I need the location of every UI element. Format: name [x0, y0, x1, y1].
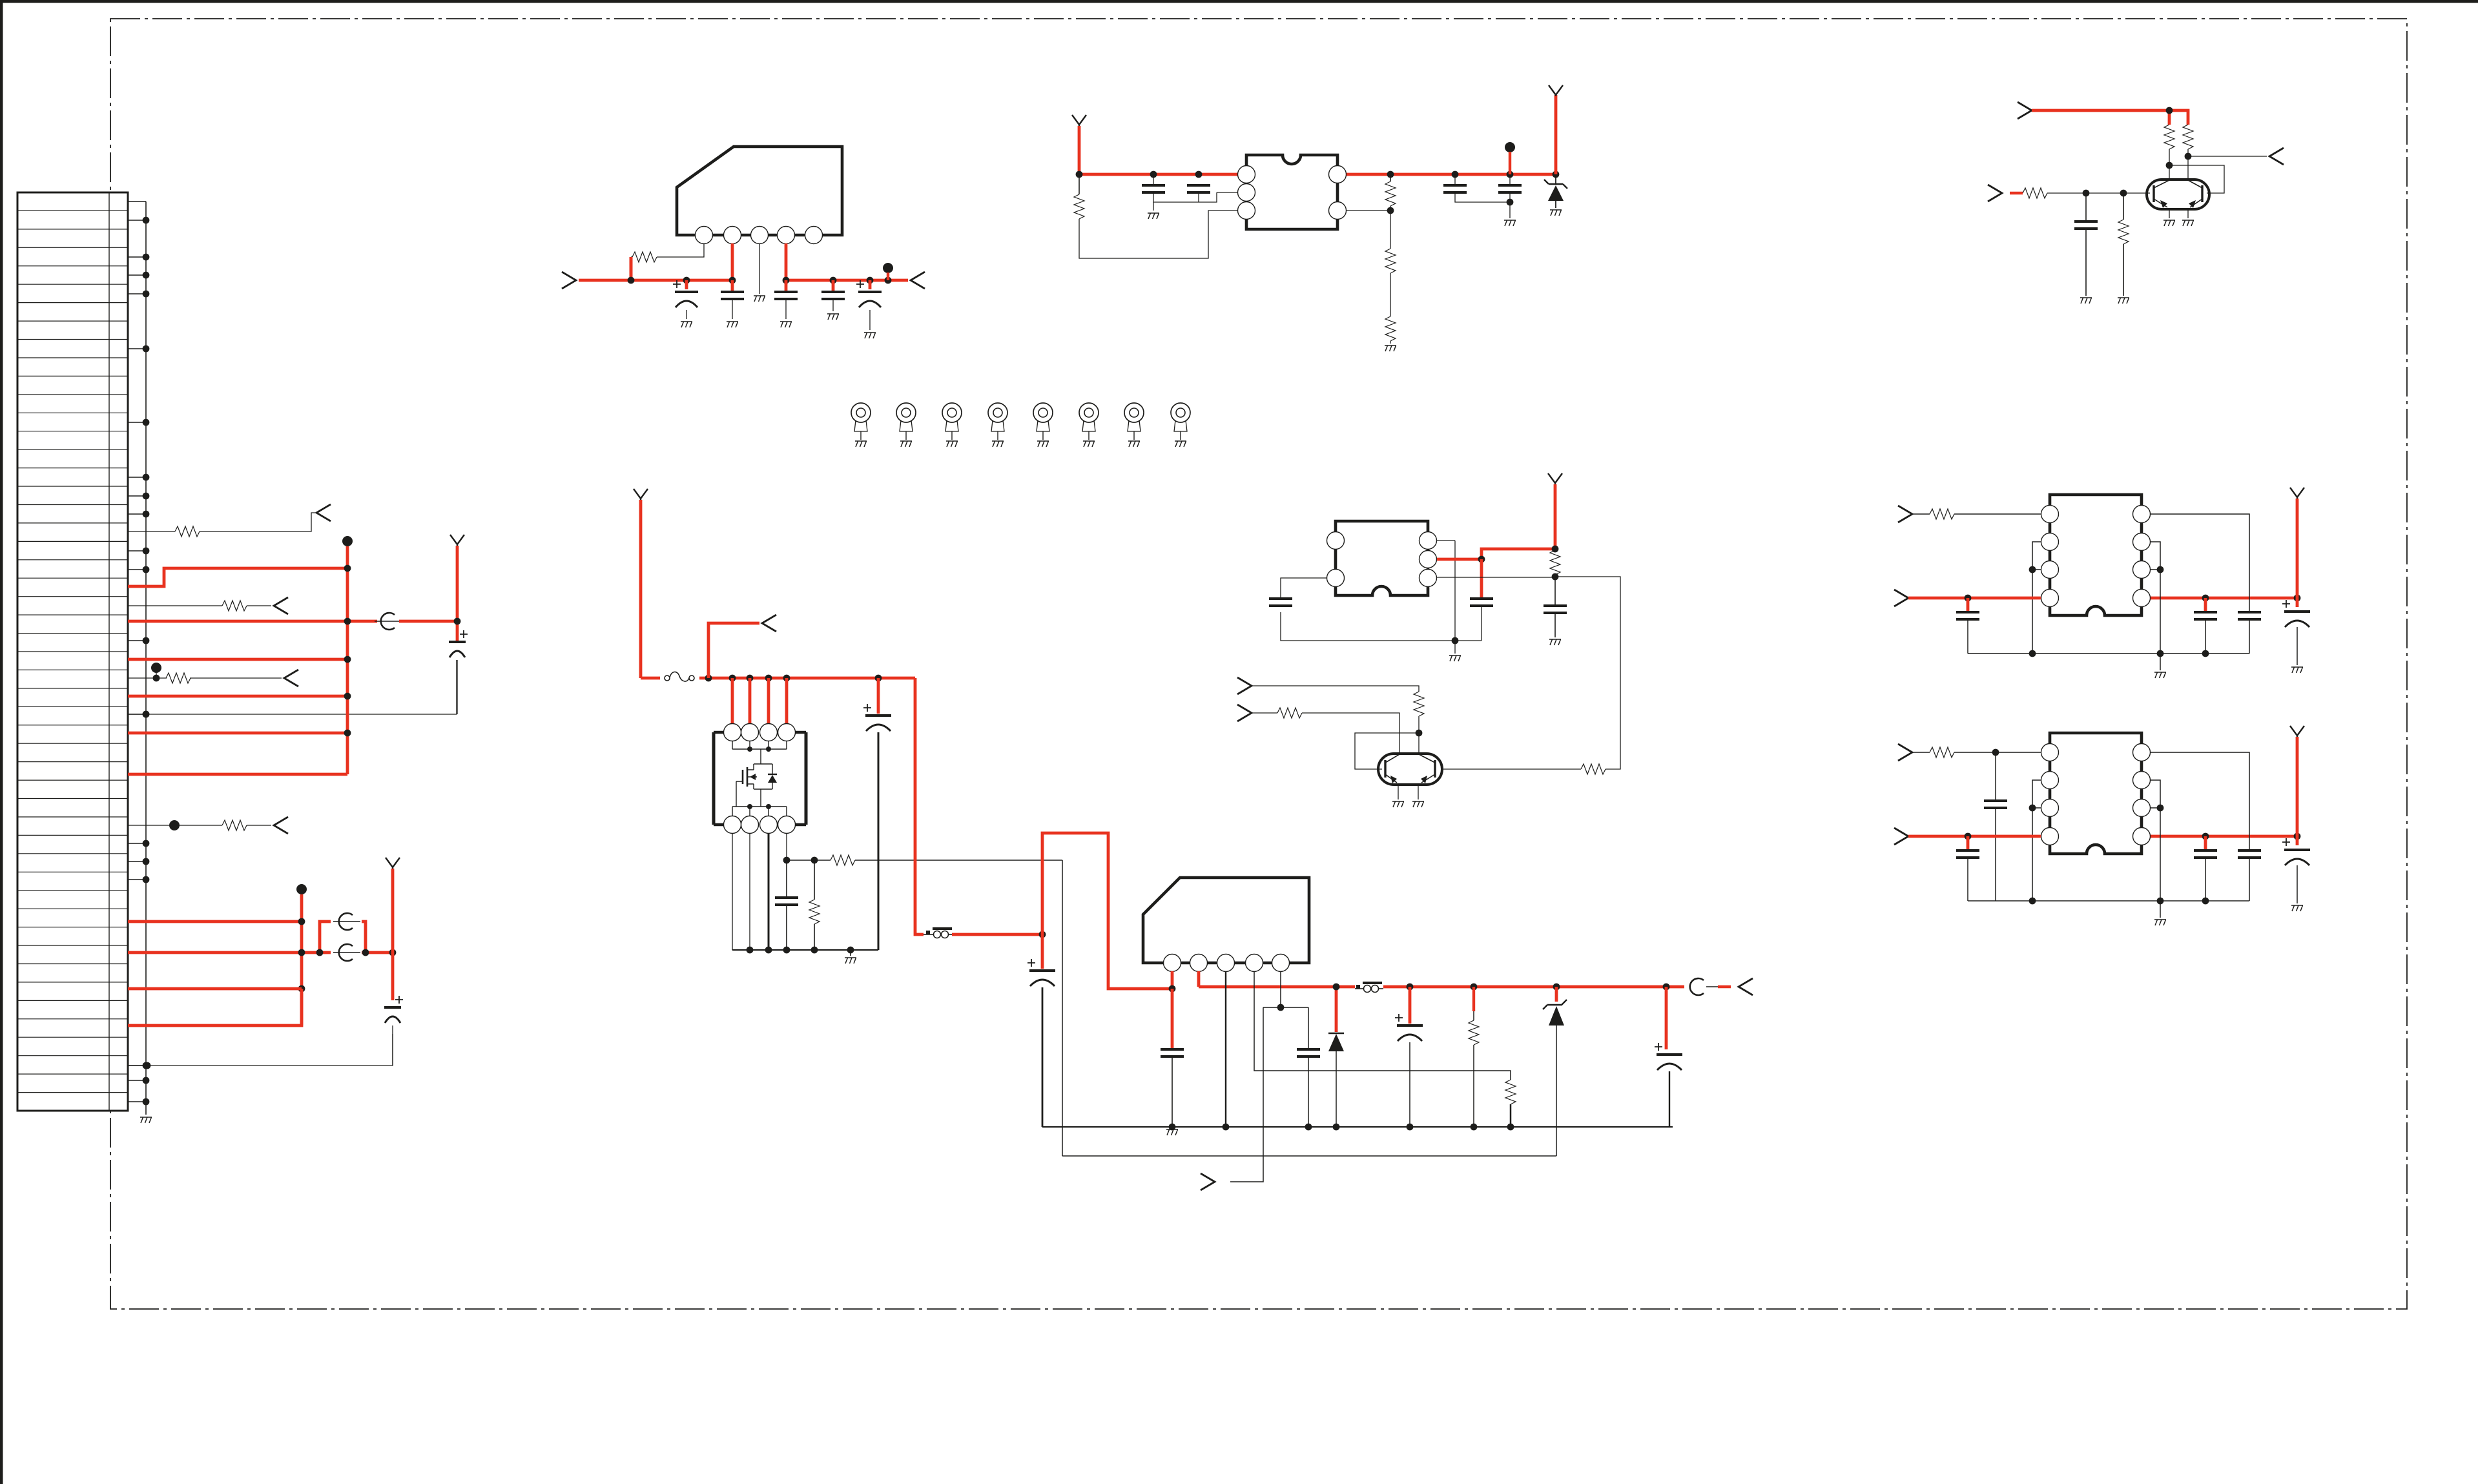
- junction dot R21: [1471, 1124, 1478, 1131]
- capacitor C8: [1443, 185, 1467, 192]
- wire red A: [128, 568, 347, 586]
- IC U2 body: [1246, 155, 1337, 229]
- resistor R8: [2023, 188, 2047, 198]
- regulator U5 body: [1143, 878, 1309, 963]
- connector pin stubs: [128, 201, 146, 202]
- wire red H: [128, 920, 302, 923]
- connector ground bus wire: [145, 201, 147, 1115]
- ground of E8: [1175, 441, 1186, 447]
- amplifier U6 body: [2050, 495, 2142, 615]
- power flag V6: [634, 489, 648, 500]
- wire red U2 out: [1347, 173, 1556, 176]
- ground of E6: [1083, 441, 1095, 447]
- resistor R9: [2123, 193, 2124, 220]
- resistor U6R: [1930, 509, 1954, 519]
- capacitor C1 stub: [685, 280, 688, 289]
- wire U6 gnd stub: [2160, 654, 2161, 670]
- junction dot C18: [1305, 1124, 1312, 1131]
- wire red I: [128, 951, 331, 954]
- wire row6 (to cap C5): [128, 1034, 393, 1066]
- capacitor C2: [721, 292, 744, 299]
- capacitor C3b stub: [832, 280, 835, 291]
- junction dot node B: [454, 618, 461, 625]
- capacitor C13: [1554, 577, 1556, 604]
- U5 pins: [1164, 954, 1181, 972]
- wire Q2 base link: [1355, 733, 1419, 769]
- ground Q1 e2: [2182, 220, 2194, 226]
- wire red V5: [1554, 484, 1557, 549]
- junction dots U7r: [2157, 805, 2164, 812]
- ground of E2: [900, 441, 912, 447]
- wire U4 pinb3 thick: [768, 833, 770, 950]
- arrow out6: [2269, 148, 2284, 165]
- ground C3: [780, 322, 792, 327]
- power flag V4: [1549, 85, 1563, 96]
- ground Q2 e2: [1412, 801, 1424, 807]
- photocoupler U3 body: [1336, 521, 1428, 595]
- junction dot p5: [1277, 1004, 1285, 1011]
- wire U7 left loop: [2032, 780, 2041, 901]
- wire row3: [128, 673, 282, 678]
- wire U6 fb loop: [2151, 514, 2249, 611]
- ground R5: [1385, 345, 1396, 351]
- ground R9: [2118, 298, 2129, 304]
- junction dot R3: [1387, 207, 1394, 214]
- junction dots U2 out: [1387, 171, 1394, 178]
- wire U2 pin2 link: [1217, 192, 1237, 193]
- arrow in4: [1237, 677, 1252, 694]
- capacitor U7Cd: [2296, 836, 2299, 845]
- wire row5: [128, 825, 271, 826]
- capacitor C11: [1269, 599, 1292, 606]
- wire U5 pin5 loop: [1230, 971, 1308, 1182]
- wire R3 chain: [1347, 181, 1390, 249]
- diode D3: [1335, 987, 1338, 1032]
- arrow out4: [274, 817, 288, 834]
- mosfet U4 body: [714, 732, 806, 825]
- wire U1 pin3: [759, 243, 760, 294]
- capacitor C1: [673, 280, 681, 288]
- U4 internal bottom rail: [732, 807, 787, 816]
- wire U5 pin1 red: [1171, 971, 1174, 989]
- wire U4 pinb4: [786, 833, 787, 860]
- U4 pins top: [724, 724, 741, 741]
- arrow out5: [911, 272, 925, 289]
- power flag V1: [450, 535, 464, 546]
- wire red L1 out: [952, 933, 1042, 936]
- wire row4 (to cap C4): [128, 660, 457, 714]
- fuse F1: [665, 675, 670, 681]
- ground D1: [1550, 210, 1562, 216]
- capacitor U6Ca: [1967, 598, 1970, 611]
- junction dot V5: [1552, 546, 1559, 553]
- junction dot U5 p1: [1169, 985, 1176, 993]
- wire in U6a: [1912, 513, 1930, 515]
- arrow in2: [2018, 102, 2032, 119]
- ground U4: [845, 958, 856, 964]
- wire fb long: [1062, 860, 1556, 1156]
- junction dot R14: [1552, 573, 1559, 581]
- capacitor C3c: [856, 280, 864, 288]
- ground U7a: [2154, 920, 2166, 925]
- capacitor C2 stub: [731, 280, 734, 291]
- junction dot U5 p3: [1223, 1124, 1230, 1131]
- capacitor C16: [1041, 934, 1044, 969]
- wire U4 pinb2: [749, 833, 750, 950]
- junction dot Q1 b: [2166, 162, 2173, 169]
- wire red U4 pin stubs: [731, 678, 734, 724]
- junction dot L1: [1039, 931, 1046, 938]
- junction dots U1 bus: [628, 277, 635, 284]
- amplifier U7 body: [2050, 733, 2142, 854]
- wire rail gnd: [850, 950, 851, 956]
- wire R5 gnd: [1390, 341, 1391, 344]
- wire C3c gnd: [869, 310, 871, 330]
- junction dots U6l: [2029, 566, 2036, 573]
- wire red V1 drop: [456, 546, 459, 642]
- wire in5: [1252, 712, 1277, 714]
- resistor R14: [1554, 549, 1556, 550]
- junction dot D3: [1333, 1124, 1340, 1131]
- wire red B2: [399, 620, 457, 623]
- wire C3 gnd: [785, 299, 787, 319]
- junction dots in3: [2083, 190, 2090, 197]
- resistor R17: [1277, 708, 1302, 718]
- junction dots U4 bus: [705, 675, 712, 682]
- capacitor C18: [1297, 1049, 1320, 1056]
- power flag VU7: [2290, 726, 2304, 737]
- wire R6 down: [2169, 149, 2170, 180]
- junction dots sense: [783, 857, 790, 864]
- wire red p1 down: [1171, 989, 1174, 1048]
- junction dot U3 out: [1478, 556, 1485, 563]
- wire red in U6b: [1908, 597, 2041, 600]
- U7 pins right: [2133, 744, 2151, 761]
- resistor R16: [1414, 692, 1424, 716]
- capacitor C7: [1187, 185, 1210, 192]
- wire R4-R5: [1390, 273, 1391, 316]
- capacitor U7Cb: [2204, 836, 2207, 849]
- wire Q1 emitters: [2169, 208, 2170, 218]
- U6 pins left: [2041, 506, 2059, 523]
- zener D1: [1555, 174, 1556, 184]
- capacitor C3c stub: [869, 280, 872, 289]
- wire U1 pin4 red: [785, 243, 788, 280]
- ground U5: [1166, 1129, 1178, 1135]
- junction dot U7b: [1965, 833, 1972, 840]
- terminal lug E5: [1033, 403, 1053, 422]
- mosfet Q3 internal: [754, 749, 761, 770]
- red bus 2: [300, 894, 304, 1025]
- resistor R5: [1385, 316, 1396, 341]
- arrow out8: [1739, 978, 1753, 995]
- wire R15 to Q2: [1442, 768, 1581, 770]
- junction dots U2 bus: [1076, 171, 1083, 178]
- wire C6 bottom: [1153, 192, 1217, 202]
- junction dot Q2 a: [1416, 730, 1423, 737]
- capacitor C4: [460, 630, 468, 638]
- wire row2: [128, 605, 271, 606]
- arrow out2: [274, 597, 288, 614]
- wire red upper hop2: [362, 922, 366, 953]
- terminal dot TP3: [342, 536, 353, 546]
- wire C8 bottom: [1455, 192, 1510, 202]
- resistor R3: [1390, 174, 1391, 181]
- body diode D2: [761, 764, 772, 789]
- U3 pins: [1327, 532, 1345, 550]
- junction dot C17: [1169, 1124, 1176, 1131]
- wire U7 gnd rail: [1968, 900, 2249, 902]
- capacitor C9 stub: [1509, 174, 1511, 185]
- wire R7 down: [2187, 149, 2189, 180]
- terminal lug E3: [942, 403, 962, 422]
- capacitor C20: [1665, 987, 1668, 1049]
- ferrite FB1: [375, 621, 404, 622]
- U7 pins left: [2041, 744, 2059, 761]
- wire red D: [128, 695, 347, 698]
- capacitor U7Ca: [1967, 836, 1970, 849]
- wire C12 down: [1481, 606, 1482, 641]
- resistor R1: [632, 252, 657, 262]
- arrow out1: [316, 504, 331, 521]
- wire red upper hop: [320, 922, 331, 953]
- wire U1 pin1: [657, 243, 704, 257]
- power flag V3: [1072, 115, 1086, 126]
- wire red in3 stub: [2010, 192, 2023, 194]
- arrow in U6a: [1898, 506, 1912, 522]
- wire in5b: [1302, 713, 1399, 754]
- capacitor C15: [863, 704, 871, 712]
- wire red V3: [1078, 126, 1081, 174]
- wire U7 right loop: [2151, 780, 2160, 901]
- capacitor C12: [1470, 599, 1493, 606]
- power flag V2: [386, 858, 400, 869]
- junction dot Q1 top: [2166, 107, 2173, 114]
- wire red V4 riser: [1554, 95, 1558, 174]
- wire C9 gnd: [1509, 192, 1511, 218]
- U1 pins: [696, 227, 713, 244]
- wire red V2 drop: [391, 869, 395, 1000]
- wire red V6 drop: [639, 500, 643, 678]
- wire U7 gnd stub: [2160, 901, 2161, 918]
- arrow in3: [1988, 185, 2002, 201]
- terminal dot TP4: [296, 884, 307, 894]
- junction dots on ground bus: [143, 217, 150, 224]
- arrow in6: [1201, 1173, 1215, 1190]
- wire red branch up: [708, 623, 759, 678]
- U4 internal top rail: [732, 741, 787, 749]
- wire R16 down: [1418, 716, 1420, 754]
- terminal dot TP5: [883, 263, 893, 273]
- ground of E4: [992, 441, 1004, 447]
- wire red VU7: [2296, 737, 2299, 836]
- wire U1 pin2 red: [731, 243, 734, 280]
- power flag VU6: [2290, 488, 2304, 499]
- zener D4: [1555, 987, 1558, 1002]
- capacitor C17: [1161, 1049, 1184, 1056]
- wire U6 gnd rail: [1968, 653, 2249, 654]
- U2 pins right: [1329, 166, 1347, 183]
- resistor R13: [222, 820, 247, 830]
- wire red I2: [362, 951, 393, 954]
- inductor L1: [933, 927, 952, 930]
- ground Q2 e1: [1392, 801, 1404, 807]
- capacitor C6: [1142, 185, 1165, 192]
- wire sense row: [787, 860, 1062, 861]
- capacitor C10: [2085, 193, 2087, 220]
- wire red out U7: [2151, 835, 2297, 838]
- wire Q1 base link: [2169, 165, 2224, 193]
- wire red U5 feed: [1042, 833, 1172, 989]
- wire R2 to pin3: [1079, 211, 1237, 258]
- wire R1 to bus: [631, 256, 632, 258]
- junction dots U7l: [2029, 805, 2036, 812]
- resistor R10: [175, 526, 200, 537]
- junction dot U7x: [1992, 749, 1999, 756]
- capacitor C8 stub: [1454, 174, 1456, 185]
- wire in U7a: [1912, 752, 1930, 753]
- wire U5 pin2 red: [1197, 971, 1201, 987]
- wire red C: [128, 658, 347, 661]
- wire in4: [1252, 686, 1419, 692]
- capacitor C3 stub: [785, 280, 788, 291]
- ground U6a: [2154, 672, 2166, 678]
- resistor R19: [814, 860, 815, 900]
- capacitor U7Cx: [1995, 752, 1996, 799]
- ground of E5: [1037, 441, 1049, 447]
- page edge top: [0, 0, 2478, 3]
- wire red C12 stub: [1480, 559, 1483, 597]
- wire red F: [128, 732, 347, 735]
- wire red supply right: [786, 279, 908, 282]
- ferrite FB4: [1690, 978, 1704, 995]
- U2 pins left: [1238, 166, 1255, 183]
- wire C1 gnd: [686, 310, 687, 319]
- resistor R7: [2183, 125, 2193, 149]
- capacitor C3a: [774, 292, 798, 299]
- U4 bottom rail: [732, 949, 878, 951]
- wire C5 to row6: [392, 1025, 393, 1066]
- regulator U1 body: [677, 147, 842, 235]
- wire U6 right loop: [2151, 542, 2160, 654]
- capacitor U6Cd: [2296, 598, 2299, 607]
- wire fb right: [1555, 577, 1620, 769]
- junction dots bus1: [344, 565, 351, 572]
- wire red U3 out: [1437, 549, 1555, 559]
- ground C2: [727, 322, 738, 327]
- connector J1 body: [17, 192, 128, 1111]
- wire U6 left loop: [2032, 542, 2041, 654]
- transistor Q2 (dual): [1378, 754, 1442, 785]
- arrow out3: [284, 670, 298, 686]
- resistor R21: [1472, 987, 1475, 1011]
- arrow in U7a: [1898, 744, 1912, 761]
- terminal lug E8: [1171, 403, 1190, 422]
- capacitor C14: [786, 860, 787, 896]
- junction dots U6r: [2157, 566, 2164, 573]
- U4 pins bottom: [724, 816, 741, 834]
- wire C16 down thick: [1042, 987, 1044, 1127]
- arrow in5: [1237, 705, 1252, 721]
- junction dots U4 rail: [747, 947, 754, 954]
- resistor R4: [1385, 249, 1396, 273]
- wire U3 c to gnd: [1454, 541, 1456, 641]
- wire red out U6: [2151, 597, 2297, 600]
- wire row1: [128, 513, 315, 531]
- junction dot U3 gnd: [1452, 637, 1459, 644]
- terminal lug E7: [1124, 403, 1144, 422]
- resistor U7R: [1930, 747, 1954, 757]
- terminal lug E1: [851, 403, 871, 422]
- wire U4 pinb1: [732, 833, 733, 950]
- ground C6: [1148, 213, 1159, 219]
- wire Q1 to arrow: [2188, 156, 2267, 157]
- ground C9: [1504, 220, 1516, 226]
- wire red VU6: [2296, 499, 2299, 598]
- wire R20 down: [1510, 1104, 1512, 1127]
- wire red K: [128, 989, 302, 1025]
- ground Q1 e1: [2163, 220, 2175, 226]
- wire red U2 in: [1079, 173, 1237, 176]
- wire red G: [128, 773, 347, 776]
- ground of E1: [855, 441, 867, 447]
- resistor R12: [166, 673, 191, 683]
- junction dot Q1 a: [2185, 153, 2192, 160]
- ground C10: [2080, 298, 2092, 304]
- resistor R20: [1505, 1080, 1516, 1104]
- wire link out: [1706, 986, 1718, 987]
- ground GND1 (connector bus): [140, 1117, 152, 1123]
- transistor Q1 (dual): [2147, 180, 2209, 209]
- capacitor U6Cb: [2204, 598, 2207, 611]
- power flag V5: [1548, 473, 1562, 484]
- wire C15 down thick: [878, 732, 880, 950]
- ground of E7: [1128, 441, 1140, 447]
- wire red supply left: [579, 279, 734, 282]
- resistor R15: [1581, 764, 1606, 774]
- capacitor C19: [1409, 987, 1412, 1024]
- wire Q2 emitters: [1398, 783, 1399, 799]
- capacitor C3b: [821, 292, 845, 299]
- wire red in U7b: [1908, 835, 2041, 838]
- terminal lug E2: [896, 403, 916, 422]
- page edge left: [0, 0, 3, 1484]
- arrow out7: [762, 615, 776, 632]
- wire U5 gnd rail: [1042, 1126, 1673, 1128]
- U6 pins right: [2133, 506, 2151, 523]
- ground C13: [1549, 639, 1561, 645]
- wire R14 to pin: [1437, 577, 1555, 578]
- wire C3b gnd: [832, 299, 834, 311]
- capacitor C15 stub: [877, 678, 880, 714]
- wire C4 to row4: [457, 660, 458, 714]
- red bus 1: [346, 546, 349, 774]
- wire U7 fb loop: [2151, 752, 2249, 849]
- arrow in1: [562, 272, 576, 289]
- resistor R18: [831, 855, 855, 865]
- terminal lug E4: [988, 403, 1007, 422]
- junction dot U6b: [1965, 595, 1972, 602]
- resistor R2: [1079, 174, 1080, 194]
- capacitor C9: [1498, 185, 1522, 192]
- wire in3 to base: [2047, 192, 2150, 194]
- capacitor U6Cc: [2238, 612, 2261, 619]
- ground C3b: [827, 314, 839, 320]
- capacitor C6 stub: [1153, 174, 1154, 185]
- ferrite FB2: [333, 952, 360, 953]
- wire red J: [128, 987, 302, 991]
- terminal dot TP1: [151, 663, 161, 673]
